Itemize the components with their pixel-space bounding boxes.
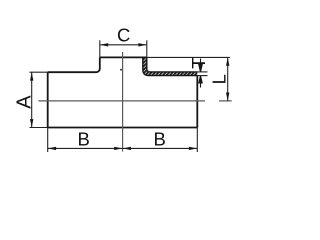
dimension B left arrow right [114, 147, 122, 150]
dimension C arrow left [100, 43, 108, 46]
dimension A arrow up [30, 72, 33, 80]
dimension A arrow down [30, 119, 33, 127]
extension line: T top (wall outer) [197, 71, 207, 73]
svg-text:B: B [154, 128, 166, 149]
run outline: left face [47, 72, 49, 127]
svg-text:L: L [208, 74, 229, 84]
dimension C line [100, 44, 146, 46]
extension line: C left (above branch) [99, 40, 101, 57]
wall section hatch band (branch right wall and run top wall) [143, 57, 198, 75]
svg-text:A: A [13, 95, 35, 109]
extension line: C right [146, 40, 148, 57]
dimension B right arrow right [189, 147, 197, 150]
dimension T lower arrow pointing up [199, 76, 202, 88]
section wall outer boundary line [143, 57, 198, 75]
extension line: T bottom (wall inner) [197, 75, 207, 77]
svg-text:B: B [78, 128, 90, 149]
run outline: right face [196, 75, 198, 128]
extension line: branch top face extended right for L [147, 56, 230, 58]
extension line: right face down for B [196, 128, 198, 153]
dimension C arrow right [138, 43, 146, 46]
centerline short dash tick [120, 69, 122, 71]
extension line: A bottom [30, 127, 48, 129]
dimension L arrow down [226, 93, 229, 101]
extension line: A top (left of run top edge) [30, 71, 48, 73]
dimension B left arrow left [48, 147, 56, 150]
dimension B left line [48, 147, 123, 149]
dimension L arrow up [226, 58, 229, 66]
extension line: left face down for B [47, 128, 49, 153]
centerline: run axis [38, 100, 231, 102]
run outline: bottom edge [48, 127, 198, 129]
dimension A line [31, 72, 33, 127]
branch top face [100, 56, 147, 58]
centerline: branch axis [122, 52, 124, 152]
section wall inner boundary line [147, 57, 198, 72]
dimension B right arrow left [123, 147, 131, 150]
run outline: top edge left with weld fillet into branch [48, 57, 100, 72]
dimension L line [227, 57, 229, 101]
svg-text:T: T [188, 57, 209, 68]
dimension T upper arrow pointing down [199, 59, 202, 72]
dimension B right line [123, 147, 198, 149]
svg-text:C: C [117, 25, 130, 46]
